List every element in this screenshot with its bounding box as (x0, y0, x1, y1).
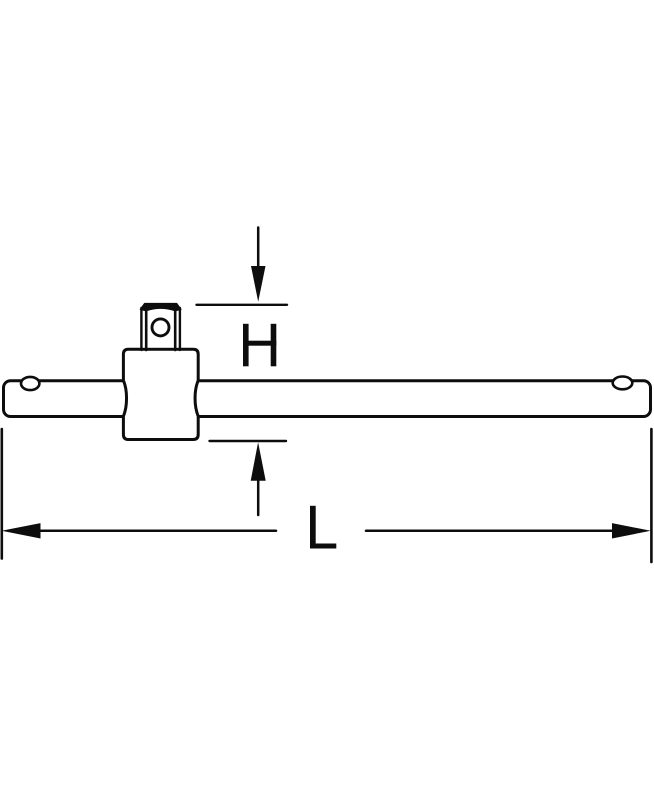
dimension H: upper reference line (197, 304, 288, 306)
right hole (oval) (613, 377, 633, 390)
left hole (oval) (21, 377, 39, 390)
drive head pin hole (circle) (152, 319, 169, 336)
square drive head outer left edge (140, 308, 142, 350)
dimension L: line right segment (366, 530, 614, 533)
dimension H: lower arrowhead (up) (251, 442, 266, 481)
dimension L: left arrowhead (2, 523, 41, 538)
square drive head outer right edge (179, 308, 181, 350)
dimension H: upper arrowhead (down) (251, 266, 266, 302)
extension line left (0, 429, 3, 559)
label L (310, 506, 336, 549)
dimension H: upper arrow tail (257, 228, 260, 268)
square drive head face (white) (140, 306, 181, 348)
dimension L: right arrowhead (612, 523, 651, 538)
square drive head top band (chamfered, filled) (140, 303, 181, 311)
dimension H: lower reference line (210, 440, 287, 442)
slider block (adapter body) (123, 349, 198, 439)
square drive head inner left edge (145, 310, 148, 350)
bar (sliding T-handle shaft) (4, 381, 651, 417)
label H (243, 324, 276, 367)
dimension H: lower arrow tail (257, 480, 260, 515)
square drive head inner right edge (174, 310, 177, 350)
dimension L: line left segment (38, 530, 276, 533)
extension line right (650, 429, 653, 562)
